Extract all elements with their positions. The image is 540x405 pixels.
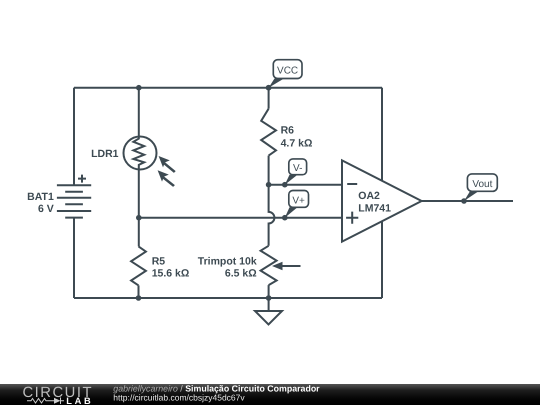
junction node R5 bottom rail: [136, 295, 142, 301]
net flag Vout: [461, 174, 497, 204]
svg-text:R5: R5: [152, 256, 166, 268]
junction node LDR/R5: [136, 215, 142, 221]
wire top rail: [74, 87, 382, 89]
junction node LDR top: [136, 85, 142, 91]
svg-text:V+: V+: [292, 195, 305, 206]
wire R6 top: [268, 88, 270, 109]
wire ground stub: [268, 298, 270, 311]
net flag V-: [282, 159, 307, 188]
wire trimpot bottom: [268, 285, 270, 298]
svg-text:http://circuitlab.com/cbsjzy45: http://circuitlab.com/cbsjzy45dc67v: [113, 393, 245, 403]
trimpot wiper arrowhead: [272, 262, 283, 270]
logo diode: [54, 398, 61, 404]
svg-text:4.7 kΩ: 4.7 kΩ: [281, 137, 313, 149]
svg-text:BAT1: BAT1: [27, 191, 54, 203]
resistor R6: [261, 109, 276, 156]
wire LDR top: [138, 88, 140, 137]
LDR light arrow 1: [159, 156, 176, 173]
junction node trimpot bottom rail: [266, 295, 272, 301]
wire opamp bottom power: [381, 221, 383, 298]
op-amp OA2: [342, 160, 422, 241]
svg-text:LM741: LM741: [358, 202, 391, 214]
wire hop over Vplus: [269, 185, 275, 246]
battery BAT1: [57, 175, 91, 218]
resistor R5: [131, 246, 146, 285]
svg-text:LAB: LAB: [66, 396, 93, 405]
svg-text:LDR1: LDR1: [91, 148, 119, 160]
wire bottom rail: [74, 297, 382, 299]
wire opamp top power: [381, 88, 383, 181]
trimpot: [261, 246, 301, 285]
photoresistor LDR1: [124, 137, 157, 170]
wire output: [422, 200, 513, 202]
svg-text:15.6 kΩ: 15.6 kΩ: [152, 268, 190, 280]
svg-text:OA2: OA2: [358, 190, 380, 202]
wire Vminus horizontal: [269, 184, 342, 186]
svg-text:V-: V-: [293, 163, 302, 174]
net flag VCC: [266, 60, 302, 91]
svg-text:Vout: Vout: [472, 179, 492, 190]
svg-text:6.5 kΩ: 6.5 kΩ: [225, 268, 257, 280]
svg-text:VCC: VCC: [277, 65, 298, 76]
junction node R6/Vminus: [266, 182, 272, 188]
wire left battery bottom: [73, 218, 75, 298]
svg-text:R6: R6: [281, 125, 295, 137]
wire R5 bottom: [138, 285, 140, 298]
net flag V+: [282, 191, 309, 221]
wire R6 bottom to Vminus junction: [268, 156, 270, 185]
wire Vplus horizontal: [139, 217, 342, 219]
LDR light arrow 2: [158, 170, 175, 187]
svg-text:6 V: 6 V: [38, 203, 54, 215]
junction node VCC rail: [266, 85, 272, 91]
ground: [255, 311, 282, 325]
wire left battery top: [73, 88, 75, 186]
wire LDR bottom to R5 junction: [138, 170, 140, 247]
svg-text:Trimpot 10k: Trimpot 10k: [198, 256, 257, 268]
logo resistor squiggle: [27, 398, 64, 405]
